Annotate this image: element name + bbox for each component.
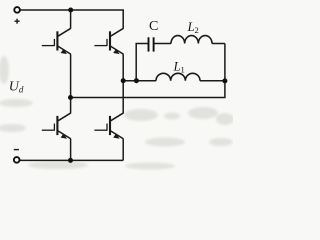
wire C to L2 segment	[154, 43, 171, 45]
minus sign	[14, 149, 19, 151]
inductor L1 coil	[156, 73, 200, 80]
capacitor C (plates)	[149, 37, 154, 51]
node bottom rail / leg1	[68, 158, 73, 163]
node leg2 midpoint / L1 branch	[121, 78, 126, 83]
transistor V1 (top left IGBT)	[42, 28, 71, 54]
wire bottom rail from - terminal to right leg corner	[20, 159, 124, 161]
transistor V2 (bottom left IGBT)	[42, 113, 71, 139]
node left riser / L1 branch	[134, 78, 139, 83]
plus sign	[15, 19, 20, 24]
wire left riser from C branch down to L1 branch	[136, 44, 148, 81]
transistor V3 (top right IGBT)	[94, 28, 123, 54]
wire L1 branch left segment (leg2 midpoint to L1)	[123, 80, 156, 82]
wire top rail from + terminal to right leg corner	[20, 10, 123, 28]
faint bleed-through smudges (background artifacts)	[0, 56, 234, 170]
svg-text:C: C	[149, 19, 158, 34]
terminal - (input negative)	[14, 157, 20, 163]
wire leg1 between V1 emitter and midpoint node	[70, 54, 72, 97]
terminal + (input positive)	[14, 7, 20, 13]
wire leg1 midpoint to right riser (lower load wire)	[71, 44, 225, 98]
node L1 branch / right riser	[222, 78, 227, 83]
inductor L2 coil	[171, 36, 212, 44]
wire leg1 collector riser	[70, 10, 72, 28]
wire top load branch right segment (L2 to right riser)	[212, 43, 225, 45]
node leg1 midpoint	[68, 95, 73, 100]
wire leg2 between V3 emitter and V4 collector	[122, 54, 124, 113]
wire leg1 V2 emitter to bottom rail	[70, 139, 72, 161]
wire L1 branch right segment (L1 to right riser)	[200, 80, 225, 82]
wire leg1 V2 collector riser (midpoint node down to V2)	[70, 98, 72, 113]
transistor V4 (bottom right IGBT)	[94, 113, 123, 139]
node top rail / leg1	[68, 8, 73, 13]
wire leg2 V4 emitter down to bottom rail corner	[122, 139, 124, 161]
